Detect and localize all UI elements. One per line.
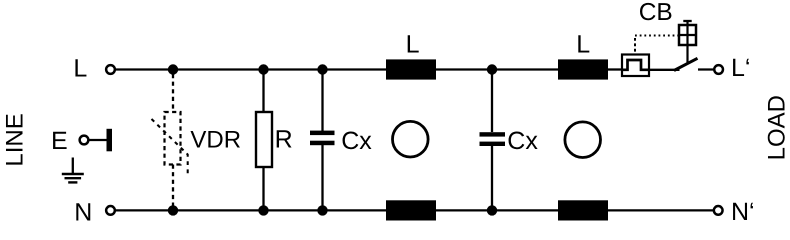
capacitor Cx2 plate bottom — [480, 142, 506, 146]
svg-text:N‘: N‘ — [731, 198, 755, 226]
svg-text:L: L — [73, 55, 87, 83]
svg-text:L: L — [576, 30, 590, 58]
wire top between chokes — [436, 68, 558, 70]
svg-text:Cx: Cx — [507, 127, 538, 155]
svg-text:Cx: Cx — [341, 127, 372, 155]
inductor L1 top winding — [386, 59, 436, 79]
wire R top — [262, 70, 264, 113]
wire R bottom — [262, 167, 264, 210]
junction Cx1 top — [317, 64, 327, 74]
junction R top — [258, 64, 268, 74]
resistor R body — [256, 112, 272, 167]
wire blade to L' terminal — [698, 68, 714, 70]
wire Cx2 bottom — [491, 146, 493, 210]
inductor L2 bottom winding — [558, 200, 608, 220]
svg-text:VDR: VDR — [190, 127, 241, 154]
terminal E — [80, 136, 89, 145]
wire VDR dashed bottom — [172, 165, 174, 207]
terminal L — [106, 65, 115, 74]
varistor VDR diagonal — [152, 119, 188, 174]
wire E terminal to plate — [89, 139, 107, 141]
inductor L2 top winding — [558, 59, 608, 79]
dotted control link horizontal — [635, 35, 678, 37]
junction VDR top — [168, 64, 178, 74]
varistor VDR dashed body — [165, 112, 181, 165]
junction Cx2 top — [487, 64, 497, 74]
svg-text:LOAD: LOAD — [764, 95, 790, 160]
inductor L1 bottom winding — [386, 200, 436, 220]
ground — [62, 158, 84, 183]
junction R bottom — [258, 205, 268, 215]
breaker release pulse element — [622, 60, 649, 70]
wire bottom between chokes — [436, 209, 558, 211]
wire bottom choke2 to N' terminal — [608, 209, 714, 211]
terminal L' — [714, 65, 723, 74]
capacitor Cx2 plate top — [480, 132, 506, 136]
breaker actuator stem — [686, 21, 688, 64]
earth plate bar — [107, 129, 113, 152]
capacitor Cx1 plate top — [310, 131, 335, 136]
choke core 1 — [393, 121, 429, 157]
terminal N' — [714, 206, 723, 215]
wire N bottom segment — [115, 209, 386, 211]
breaker actuator cross horizontal — [679, 34, 696, 36]
svg-text:N: N — [74, 198, 92, 226]
switch blade — [674, 58, 698, 70]
svg-text:L: L — [406, 30, 420, 58]
wire breaker box to blade pivot — [649, 69, 680, 71]
wire Cx1 bottom — [321, 145, 323, 211]
terminal N — [106, 206, 115, 215]
svg-text:L‘: L‘ — [731, 54, 750, 82]
wire Cx1 top — [321, 70, 323, 132]
wire L top segment — [115, 68, 386, 70]
svg-text:CB: CB — [639, 0, 673, 26]
junction Cx2 bottom — [487, 205, 497, 215]
wire Cx2 top — [491, 70, 493, 133]
wire VDR dashed top — [172, 74, 174, 112]
breaker actuator square — [679, 25, 696, 45]
wire top choke2 to breaker box — [608, 68, 622, 70]
breaker overcurrent release box — [622, 55, 649, 77]
junction VDR bottom — [168, 205, 178, 215]
svg-text:LINE: LINE — [1, 113, 28, 166]
svg-text:R: R — [275, 125, 293, 153]
dotted control link vertical — [634, 38, 636, 54]
capacitor Cx1 plate bottom — [310, 141, 335, 146]
svg-text:E: E — [51, 127, 68, 155]
breaker actuator handle bar — [683, 20, 691, 22]
choke core 2 — [565, 122, 601, 158]
junction Cx1 bottom — [317, 205, 327, 215]
